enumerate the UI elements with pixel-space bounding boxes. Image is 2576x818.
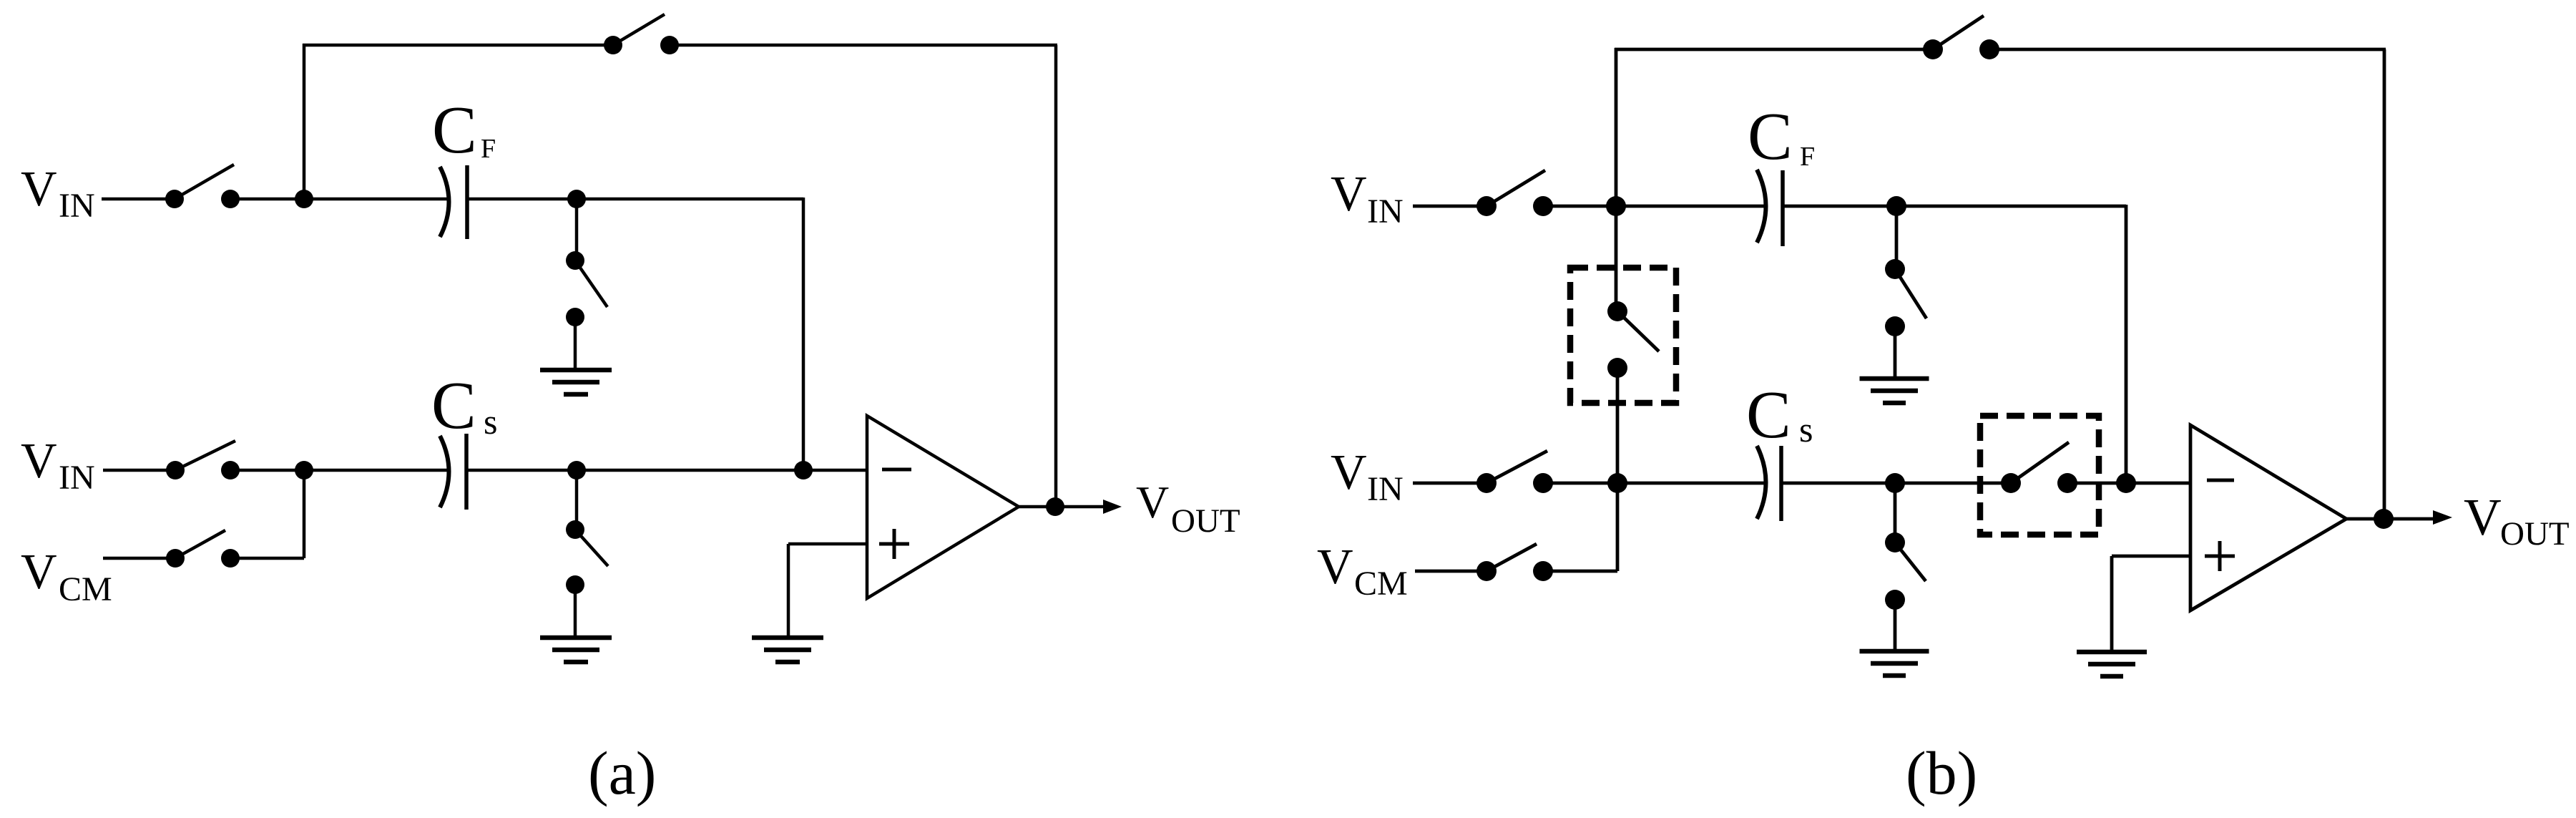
wire: (b) stub from C_S node down to ground switch xyxy=(1894,483,1897,542)
arrow: (b) output arrowhead xyxy=(2433,510,2452,525)
switch: (a) C_F reset switch to ground xyxy=(566,251,607,326)
dashed box: (b) highlighted input series switch xyxy=(1980,416,2099,535)
wire: (b) mid vertical from C_F row down to summing row xyxy=(2125,205,2128,482)
svg-text:IN: IN xyxy=(59,459,95,497)
svg-text:C: C xyxy=(1746,378,1791,452)
wire: (a) V_CM branch vertical riser xyxy=(303,470,306,558)
label C_S (a) sampling capacitor xyxy=(431,369,497,443)
switch: (b) series switch inside dashed box 2 xyxy=(2001,442,2077,493)
wire: (a) top feedback, right segment xyxy=(670,44,1057,47)
wire: (a) left vertical riser from top wire to V_IN node xyxy=(303,44,306,199)
caption (a) xyxy=(588,739,656,807)
wire: (a) feedback right vertical down to output node xyxy=(1054,45,1058,507)
svg-text:OUT: OUT xyxy=(2500,515,2570,552)
op-amp U1 (a) inverting input marker xyxy=(882,468,911,472)
wire: (a) V_CM switch to riser xyxy=(230,557,304,560)
label V_IN (a) upper input xyxy=(21,162,95,225)
wire: (b) feedback right vertical down to output node xyxy=(2383,49,2386,519)
ground: (b) under C_S bottom-plate switch xyxy=(1860,651,1929,676)
wire: (b) C_F right plate to corner xyxy=(1783,205,2126,208)
wire: (a) reset switch to ground xyxy=(574,317,577,369)
wire: (b) top feedback, left segment xyxy=(1615,48,1933,52)
arrow: (a) output arrowhead xyxy=(1103,500,1122,514)
op-amp U2 (b) inverting input marker xyxy=(2207,479,2234,482)
wire: (a) V_IN lead to switch xyxy=(102,198,175,201)
op-amp U1 (a) xyxy=(867,416,1019,598)
svg-text:V: V xyxy=(1331,445,1367,500)
wire: (b) V_IN lead to switch xyxy=(1413,205,1487,208)
label C_S (b) sampling capacitor xyxy=(1746,378,1813,452)
switch: (a) C_S bottom-plate switch to ground xyxy=(566,520,608,594)
switch: (b) series switch inside dashed box xyxy=(1607,301,1659,378)
wire: (b) dashed box 2 to op-amp inverting input xyxy=(2067,482,2191,485)
wire: (b) left vertical riser from top wire to V_IN node xyxy=(1615,48,1618,206)
label C_F (a) feedback capacitor xyxy=(432,93,496,167)
switch: (a) V_CM switch xyxy=(166,530,240,568)
wire: (b) top feedback, right segment xyxy=(1989,48,2386,52)
switch: (b) feedback switch on top wire xyxy=(1923,16,1999,59)
wire: (b) lower V_IN lead to switch xyxy=(1413,482,1487,485)
node: (b) summing junction with mid vertical xyxy=(2116,473,2136,493)
svg-text:(a): (a) xyxy=(588,739,656,807)
wire: (b) V_CM switch to riser xyxy=(1543,570,1617,573)
node: (a) junction of V_IN wire and top riser xyxy=(295,190,313,208)
ground: (a) at op-amp non-inverting input xyxy=(752,638,823,662)
wire: (b) lower switch to capacitor C_S xyxy=(1543,482,1766,485)
wire: (a) mid vertical from C_F row down to summing node row xyxy=(802,198,805,470)
wire: (a) lower switch to capacitor C_S xyxy=(230,469,449,472)
ground: (a) under C_S bottom-plate switch xyxy=(540,638,612,662)
switch: (b) upper V_IN sampling switch xyxy=(1476,170,1553,216)
svg-text:V: V xyxy=(1331,167,1367,222)
ground: (b) at op-amp non-inverting input xyxy=(2077,652,2147,676)
ground: (b) under C_F reset switch xyxy=(1860,379,1929,403)
label V_OUT (b) output xyxy=(2464,488,2570,552)
svg-text:V: V xyxy=(21,162,57,217)
wire: (b) reset switch to ground xyxy=(1894,326,1897,378)
wire: (b) non-inverting input to ground xyxy=(2112,556,2191,651)
wire: (b) V_CM lead to switch xyxy=(1415,570,1487,573)
ground: (a) under C_F reset switch xyxy=(540,370,612,394)
node: (b) junction of V_IN wire and riser xyxy=(1606,196,1626,216)
svg-text:(b): (b) xyxy=(1906,739,1977,807)
wire: (a) bottom-plate switch to ground xyxy=(574,585,577,638)
wire: (b) C_S right plate into dashed box 2 xyxy=(1781,482,2011,485)
switch: (b) lower V_IN sampling switch xyxy=(1476,451,1553,493)
label C_F (b) feedback capacitor xyxy=(1748,99,1815,174)
wire: (a) non-inverting input to ground xyxy=(788,544,868,637)
capacitor C_S (b) xyxy=(1757,446,1781,521)
wire: (a) op-amp output xyxy=(1019,505,1105,509)
svg-text:C: C xyxy=(431,369,476,443)
svg-text:V: V xyxy=(21,545,57,600)
switch: (a) feedback switch on top wire xyxy=(604,14,679,54)
op-amp U1 (a) non-inverting input marker xyxy=(879,529,909,559)
node: (a) C_F output plate junction xyxy=(567,190,586,208)
wire: (a) stub from C_S node down to ground switch xyxy=(575,470,579,530)
caption (b) xyxy=(1906,739,1977,807)
node: (a) junction of lower V_IN wire and V_CM branch xyxy=(295,461,313,479)
wire: (b) riser from V_IN node into dashed switch box xyxy=(1615,206,1618,311)
svg-text:V: V xyxy=(1136,477,1169,527)
wire: (a) V_CM lead to switch xyxy=(103,557,175,560)
wire: (a) top feedback, left segment xyxy=(303,44,613,47)
op-amp U2 (b) xyxy=(2190,425,2346,610)
node: (b) junction lower V_IN / dashed-box riser / V_CM xyxy=(1607,473,1627,493)
svg-text:CM: CM xyxy=(59,570,112,608)
wire: (a) switch to capacitor C_F xyxy=(230,198,449,201)
svg-text:V: V xyxy=(2464,488,2502,546)
wire: (b) op-amp output xyxy=(2346,517,2435,521)
node: (b) C_S output plate junction xyxy=(1885,473,1905,493)
wire: (a) lower V_IN lead to switch xyxy=(103,469,175,472)
wire: (a) C_S right plate to op-amp inverting input xyxy=(466,469,868,472)
switch: (a) lower V_IN sampling switch xyxy=(166,441,240,479)
svg-text:IN: IN xyxy=(1367,193,1404,230)
node: (b) output feedback junction xyxy=(2374,509,2394,529)
node: (b) C_F output plate junction xyxy=(1886,196,1906,216)
svg-text:C: C xyxy=(1748,99,1793,174)
wire: (a) C_F right plate to corner xyxy=(467,198,803,201)
label V_IN (a) lower input xyxy=(21,434,95,497)
capacitor C_S (a) xyxy=(440,434,466,510)
label V_IN (b) lower input xyxy=(1331,445,1404,508)
capacitor C_F (b) xyxy=(1757,170,1783,246)
svg-text:s: s xyxy=(484,401,497,442)
svg-text:CM: CM xyxy=(1354,565,1408,603)
svg-text:V: V xyxy=(1317,540,1353,595)
dashed box: (b) highlighted series switch xyxy=(1570,268,1676,403)
wire: (b) switch to capacitor C_F xyxy=(1543,205,1766,208)
wire: (b) stub from C_F node down to reset switch xyxy=(1895,206,1899,269)
svg-text:IN: IN xyxy=(1367,470,1404,508)
label V_OUT (a) output xyxy=(1136,477,1240,540)
node: (a) output feedback junction xyxy=(1046,497,1064,516)
svg-text:F: F xyxy=(1800,142,1815,172)
op-amp U2 (b) non-inverting input marker xyxy=(2205,541,2235,571)
wire: (b) bottom-plate switch to ground xyxy=(1894,600,1897,651)
node: (a) C_S output plate junction xyxy=(567,461,586,479)
label V_CM (a) common-mode input xyxy=(21,545,112,608)
svg-text:OUT: OUT xyxy=(1171,502,1240,540)
svg-text:IN: IN xyxy=(59,187,95,225)
svg-text:s: s xyxy=(1799,409,1813,449)
capacitor C_F (a) xyxy=(440,165,467,239)
label V_CM (b) common-mode input xyxy=(1317,540,1408,603)
svg-text:C: C xyxy=(432,93,477,167)
wire: (b) V_CM branch vertical riser xyxy=(1616,483,1620,571)
wire: (a) stub from C_F node down to reset switch xyxy=(575,199,579,261)
switch: (b) V_CM switch xyxy=(1476,544,1553,581)
svg-text:F: F xyxy=(481,134,496,164)
switch: (b) C_F reset switch to ground xyxy=(1885,259,1926,336)
switch: (b) C_S bottom-plate switch to ground xyxy=(1885,532,1926,610)
node: (a) summing junction with mid vertical xyxy=(794,461,813,479)
label V_IN (b) upper input xyxy=(1331,167,1404,230)
svg-text:V: V xyxy=(21,434,57,489)
switch: (a) upper V_IN sampling switch xyxy=(165,165,240,208)
wire: (b) dashed-box switch down to lower V_IN node xyxy=(1616,368,1620,483)
